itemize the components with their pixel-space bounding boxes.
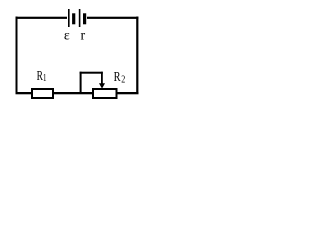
battery cell 1: short thick plate xyxy=(72,13,75,24)
battery cell 2: short thick plate xyxy=(83,13,86,24)
battery cell 1: long plate xyxy=(68,9,70,27)
svg-text:R2: R2 xyxy=(114,69,126,86)
wire: bottom segment between R1 and R2 xyxy=(53,92,93,94)
wire: top-left horizontal segment xyxy=(16,17,68,19)
wire: top-right horizontal segment xyxy=(87,17,138,19)
wiper arrowhead of rheostat R2 xyxy=(99,83,105,88)
wire: bottom segment from left corner to R1 xyxy=(16,92,33,94)
svg-text:ε: ε xyxy=(64,29,70,44)
wire: right vertical side xyxy=(136,17,138,95)
battery cell 2: long plate xyxy=(79,9,81,27)
wire: bottom segment from R2 to right corner xyxy=(117,92,139,94)
svg-text:r: r xyxy=(81,29,86,44)
rheostat R2 (box) xyxy=(93,89,117,98)
resistor R1 (box) xyxy=(32,89,53,98)
wiper arrow stem of rheostat R2 xyxy=(101,72,103,85)
wire: wiper connection vertical riser from bottom wire xyxy=(80,72,82,93)
wire: wiper connection horizontal run xyxy=(80,72,103,74)
wire: left vertical side xyxy=(16,17,18,95)
svg-text:R1: R1 xyxy=(37,69,47,84)
